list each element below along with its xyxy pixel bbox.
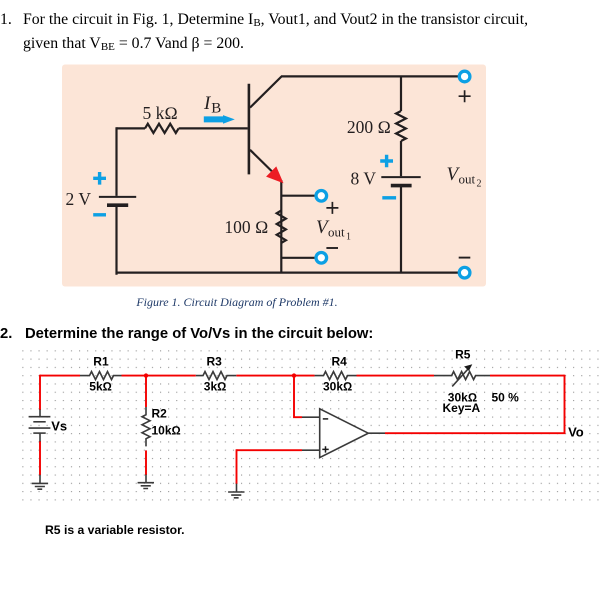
- ground G2 bars: [138, 483, 154, 489]
- transistor Q1 collector lead: [250, 76, 282, 107]
- wire: op-amp output: [385, 432, 565, 434]
- resistor 5 kOhm zigzag: [145, 124, 179, 133]
- junction node op-amp input: [292, 373, 296, 377]
- potentiometer R5 arrowhead: [464, 364, 472, 371]
- minus sign Vout1: [326, 247, 338, 249]
- wire: top rail seg B: [122, 375, 196, 377]
- figure 1 panel background: [62, 65, 486, 287]
- ground G1 bars: [32, 483, 48, 489]
- wire: R2 top: [145, 376, 147, 407]
- svg-text:3kΩ: 3kΩ: [204, 379, 227, 393]
- resistor R5: [434, 372, 490, 380]
- svg-text:R5: R5: [455, 348, 471, 362]
- terminal top right: [459, 71, 470, 82]
- op-amp pin output: [368, 432, 385, 434]
- wire: base row left segment: [117, 127, 146, 129]
- minus sign bottom right: [459, 257, 471, 259]
- resistor 100 Ohm zigzag: [277, 211, 286, 243]
- svg-text:100 Ω: 100 Ω: [224, 217, 268, 237]
- svg-text:R2: R2: [152, 406, 168, 420]
- svg-text:30kΩ: 30kΩ: [323, 379, 352, 393]
- svg-text:out: out: [459, 172, 476, 187]
- wire: inverting input branch: [294, 376, 302, 418]
- wire: Vs top: [39, 375, 41, 410]
- ground G3 stub: [236, 484, 238, 492]
- transistor Q1 base bar: [248, 84, 251, 175]
- op-amp plus sign: [322, 446, 328, 452]
- resistor R1: [80, 372, 122, 380]
- wire: collector top horizontal: [281, 75, 458, 77]
- ground G2 stub: [145, 475, 147, 483]
- wire: base row right segment: [179, 127, 248, 129]
- battery Vs stub top: [39, 410, 41, 417]
- svg-text:8 V: 8 V: [351, 169, 377, 189]
- plus sign Vout1: [326, 202, 338, 214]
- svg-text:1: 1: [346, 232, 351, 243]
- svg-text:R1: R1: [93, 354, 109, 368]
- plus sign top right: [459, 90, 471, 102]
- battery 2V plates: [99, 197, 136, 205]
- battery Vs plate 1: [29, 416, 51, 418]
- svg-text:5kΩ: 5kΩ: [89, 379, 112, 393]
- junction node R2: [144, 373, 148, 377]
- wire: emitter vertical: [280, 180, 282, 273]
- ground G1 stub: [39, 475, 41, 484]
- wire: right vertical upper (200 Ohm branch): [400, 76, 402, 111]
- svg-text:R4: R4: [332, 354, 348, 368]
- wire: Vout1 top stub: [281, 195, 315, 197]
- note text: [45, 523, 185, 537]
- current arrow I_B (cyan): [204, 115, 235, 124]
- transistor Q1 emitter lead: [250, 150, 274, 174]
- resistor 200 Ohm zigzag: [396, 111, 406, 141]
- terminal Vout1 bottom: [316, 252, 327, 263]
- wire: top rail seg C: [236, 375, 314, 377]
- wire: top rail seg A: [40, 375, 80, 377]
- svg-text:200 Ω: 200 Ω: [347, 117, 391, 137]
- svg-text:Vs: Vs: [51, 418, 67, 433]
- op-amp pin non-inverting: [302, 449, 320, 451]
- wire: non-inverting to ground: [236, 449, 238, 484]
- wire: right vertical: [564, 375, 566, 434]
- op-amp U1 triangle: [320, 409, 369, 458]
- resistor R3: [196, 372, 237, 380]
- op-amp minus sign: [323, 418, 328, 420]
- battery Vs plate 3: [29, 427, 51, 429]
- svg-text:R3: R3: [207, 354, 223, 368]
- wire: Vs bottom: [39, 441, 41, 475]
- battery 8V plates: [381, 177, 420, 186]
- wire: 200 Ohm to 8V battery: [400, 141, 402, 176]
- svg-text:B: B: [211, 101, 221, 117]
- emitter arrow (red): [268, 168, 283, 182]
- wire: R2 bottom: [145, 450, 147, 475]
- svg-text:Vo: Vo: [568, 424, 584, 439]
- wire: bottom rail: [117, 272, 459, 274]
- svg-text:5 kΩ: 5 kΩ: [143, 103, 178, 123]
- potentiometer R5 arrow: [452, 369, 468, 387]
- op-amp pin inverting: [302, 416, 320, 418]
- wire: left vertical upper (2V top): [115, 127, 117, 196]
- svg-text:10kΩ: 10kΩ: [152, 423, 181, 437]
- wire: left vertical lower: [117, 206, 118, 274]
- svg-text:out: out: [328, 225, 345, 240]
- wire: top rail seg D: [357, 375, 435, 377]
- problem 1 text: [0, 9, 560, 56]
- plus sign 8V (cyan): [380, 155, 393, 168]
- wire: non-inverting input branch: [237, 449, 303, 451]
- problem 2 text: [0, 326, 373, 342]
- terminal Vout1 top: [316, 191, 327, 202]
- wire: Vout1 bottom stub: [281, 257, 315, 259]
- resistor R2: [142, 407, 150, 446]
- svg-text:2 V: 2 V: [66, 189, 92, 209]
- battery Vs plate 4: [33, 432, 45, 434]
- resistor R4: [315, 372, 357, 380]
- terminal bottom right: [459, 267, 470, 278]
- svg-text:2: 2: [477, 179, 482, 190]
- svg-text:Key=A: Key=A: [443, 401, 481, 415]
- minus sign 8V (cyan): [382, 196, 396, 199]
- minus sign 2V (cyan): [93, 213, 106, 216]
- battery Vs plate 2: [33, 421, 45, 423]
- svg-text:50 %: 50 %: [492, 390, 520, 404]
- ground G3 bars: [228, 492, 244, 498]
- plus sign 2V (cyan): [93, 172, 106, 185]
- battery Vs stub bottom: [39, 433, 41, 441]
- wire: 8V battery to bottom rail: [400, 187, 402, 273]
- grid dots: [18, 346, 600, 504]
- wire: top rail seg E: [490, 375, 565, 377]
- figure caption: [0, 295, 474, 310]
